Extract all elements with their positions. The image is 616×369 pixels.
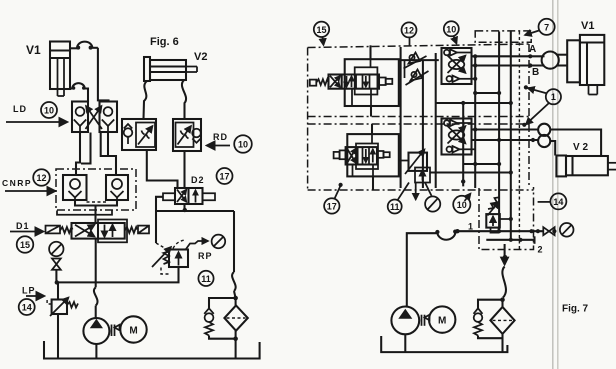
cylinder V2 cap — [144, 57, 150, 81]
relief LP arrow — [50, 298, 69, 317]
valve row2 right tabs — [377, 151, 390, 158]
solenoid valve row1 spring — [316, 79, 328, 85]
reducing valve inner arrow — [422, 170, 424, 181]
check pack 12 top line — [399, 59, 439, 61]
cross line y164 — [463, 163, 499, 165]
svg-text:11: 11 — [390, 202, 400, 212]
pump fig7 suction — [404, 334, 406, 352]
arrow CNRP — [5, 190, 55, 192]
relief valve 14 adjust spring — [488, 197, 500, 215]
pack row2 top check — [444, 120, 472, 126]
junction dots V2 lines — [473, 127, 477, 131]
relief LP spring — [67, 302, 78, 308]
circled 14 fig7 — [550, 193, 566, 209]
valve D2 crossed arrows — [177, 190, 187, 203]
bypass check fig7 — [474, 308, 483, 322]
valve row1 body — [329, 75, 380, 89]
relief RP adjust arrow — [152, 247, 171, 267]
throttle arrow RD-right — [178, 126, 192, 145]
svg-text:B: B — [532, 67, 539, 78]
gauge RP — [212, 235, 226, 249]
junction dot port2 — [509, 238, 513, 242]
port line B — [472, 64, 542, 66]
check ball left — [74, 107, 86, 132]
svg-text:12: 12 — [404, 25, 414, 35]
relief RP spring — [164, 252, 170, 265]
arrow RD — [207, 145, 230, 147]
leader 12 — [409, 37, 411, 46]
svg-text:V1: V1 — [581, 20, 594, 32]
manifold line x511 — [510, 32, 512, 240]
check 12 lower — [411, 70, 423, 81]
coupling fig7 — [422, 315, 430, 326]
circled 17 fig7 — [324, 198, 339, 213]
cylinder V1 fig7 body — [580, 35, 604, 85]
relief RP pilot dash below — [161, 268, 170, 275]
filter element dashed — [227, 317, 246, 319]
svg-text:15: 15 — [20, 240, 30, 250]
arrow D1 — [10, 231, 43, 233]
junction dot x463 — [461, 179, 465, 183]
coupler V2 circles — [538, 124, 550, 147]
arrow 10 top — [454, 36, 457, 44]
svg-text:17: 17 — [327, 201, 337, 211]
svg-text:RD: RD — [213, 132, 228, 142]
svg-text:V1: V1 — [26, 43, 41, 57]
port line A — [472, 55, 542, 57]
flow control valve RD-left frame — [122, 119, 156, 150]
hose to filter fig6 — [232, 272, 236, 298]
pump fig7 triangle — [398, 309, 412, 319]
cylinder V1 body — [50, 42, 70, 90]
circled 10 fig7 top — [444, 21, 459, 36]
valve D2 left port tab — [163, 193, 175, 200]
junction dot internal — [509, 217, 513, 221]
tank line fig6 — [44, 341, 260, 359]
junction dot header — [55, 280, 59, 284]
junction dot D2 — [183, 208, 187, 212]
reducing valve drain arrow — [415, 183, 417, 200]
manifold line x463 — [462, 103, 464, 186]
bypass check fig6 — [204, 308, 214, 322]
spring D1 left — [60, 227, 73, 233]
circled 1 — [546, 89, 561, 104]
flow control valve RD-right frame — [173, 119, 201, 151]
junction dots A B lines — [473, 54, 477, 58]
subplate row1 port wires — [352, 59, 371, 105]
port 3 wire — [504, 244, 506, 265]
page fold line right — [557, 0, 559, 369]
dashed pilot link — [87, 201, 107, 203]
svg-text:2: 2 — [538, 245, 543, 255]
cylinder V1 fig7 rod — [589, 85, 598, 95]
junction dot filter top — [233, 296, 238, 301]
port 2 line — [486, 239, 534, 241]
reducing valve arrow — [405, 150, 425, 175]
cylinder V2 fig7 body — [566, 156, 608, 175]
junction dot y172.5 — [509, 170, 513, 174]
wire subplate row1 down — [370, 106, 372, 117]
pack row1 ellipse + cross arrows — [448, 56, 466, 74]
filter diamond fig6 — [224, 305, 247, 330]
gauge isolator check — [52, 259, 61, 270]
pump triangle — [90, 319, 103, 328]
circled 15 — [17, 236, 34, 253]
arrow 15 to box — [323, 37, 324, 45]
junction dots port1 — [455, 229, 459, 233]
manifold line x436 — [435, 53, 437, 188]
big dash-dot enclosure fig7 — [308, 44, 534, 190]
manifold line x423 — [422, 60, 424, 188]
svg-text:A: A — [529, 44, 536, 55]
pack row1 bottom check — [447, 76, 460, 82]
cylinder V2 fig7 cap — [556, 156, 566, 177]
valve row2 body — [346, 147, 377, 164]
svg-text:V2: V2 — [194, 51, 207, 63]
dash-dot box 7 — [475, 31, 531, 42]
check 12 upper — [409, 53, 421, 64]
solenoid D1 left — [46, 226, 61, 234]
tank line fig7 — [381, 336, 507, 352]
gauge fig7 mid — [425, 196, 440, 211]
valve D1 parallel arrows — [105, 225, 113, 238]
valve D2 right port tab — [203, 193, 216, 200]
drain loop line under CNRP — [57, 211, 112, 215]
throttle square RD-left — [136, 123, 155, 148]
valve row2 crossed arrows — [347, 149, 356, 164]
arrow 10 bottom — [465, 194, 471, 202]
filter element dashed fig7 — [493, 319, 513, 321]
subplate row1 — [345, 59, 399, 106]
check ball CNRP left — [69, 179, 82, 200]
arrow 7 to box — [525, 31, 539, 36]
coupler V1 stubs — [542, 55, 568, 66]
valve D1 body — [72, 223, 125, 239]
relief valve LP — [52, 300, 67, 315]
counterbalance pack row1 frame — [442, 48, 472, 84]
svg-text:15: 15 — [316, 25, 326, 35]
check ball RD-right — [192, 129, 201, 143]
pack row2 check link — [460, 148, 476, 150]
circled 15 fig7 — [314, 22, 329, 37]
pump — [83, 318, 109, 344]
svg-text:M: M — [438, 316, 446, 327]
valve D1 crossed arrows — [75, 225, 95, 237]
wire gauge to relief line — [55, 270, 57, 283]
valve row1 straight arrows — [347, 76, 352, 87]
manifold dashed line x519 — [518, 32, 520, 250]
pump suction wire — [95, 344, 97, 359]
svg-text:1: 1 — [551, 92, 556, 102]
wire top border to subplate row1 — [369, 45, 371, 59]
pilot check square left — [63, 175, 87, 200]
circled 17 — [217, 168, 233, 184]
pack row2 ellipse + cross arrows — [448, 126, 466, 144]
hose V2 right — [182, 80, 186, 119]
wire check bottom fig7 — [478, 336, 503, 339]
circled 10 (RD) — [234, 135, 252, 153]
cylinder V2 fig7 rod — [608, 163, 616, 170]
svg-text:Fig. 6: Fig. 6 — [150, 36, 179, 48]
cross line y172.5 — [430, 171, 511, 173]
relief valve 14 square — [486, 214, 500, 228]
wire subplate row2 down — [372, 176, 374, 190]
reducing valve 11 square1 — [409, 153, 428, 171]
port 1 line — [456, 230, 543, 232]
reducing valve connections — [399, 160, 409, 162]
arrow LD — [6, 121, 67, 123]
svg-text:D1: D1 — [16, 221, 30, 231]
leader 14 — [538, 201, 551, 203]
circled 10 fig7 bottom — [453, 196, 470, 213]
junction dots y103 — [461, 101, 465, 105]
wire pack12 vertical — [404, 60, 406, 78]
valve row1 inner lines — [363, 75, 370, 89]
dashed pilot to RP — [156, 243, 168, 250]
svg-text:RP: RP — [198, 251, 213, 261]
svg-text:CNRP: CNRP — [2, 178, 32, 188]
junction dot filter bottom — [233, 336, 238, 341]
subplate row2 — [347, 134, 399, 176]
reducing valve square2 — [415, 168, 430, 183]
cross line y93 — [475, 92, 499, 94]
svg-text:10: 10 — [446, 24, 456, 34]
filter diamond fig7 — [490, 307, 514, 334]
relief header line — [57, 267, 179, 282]
arrow LP — [26, 295, 44, 297]
junction dots y164 — [473, 162, 477, 166]
hose V2 left — [144, 81, 148, 119]
svg-text:LD: LD — [13, 104, 27, 114]
leader 1 lower — [526, 103, 549, 124]
svg-text:14: 14 — [22, 302, 32, 312]
svg-text:12: 12 — [36, 173, 46, 183]
junction dot filter top fig7 — [500, 297, 505, 302]
port 2 end tick — [533, 236, 535, 244]
check ball RD-left — [124, 124, 133, 144]
svg-text:17: 17 — [219, 172, 229, 182]
wire V1 bottom port — [70, 83, 89, 102]
pack row1 top check — [444, 49, 472, 55]
cylinder V2 rod — [186, 67, 197, 73]
counterbalance valve 10 left square — [72, 102, 88, 133]
wire filter to tank — [235, 331, 237, 359]
svg-text:7: 7 — [544, 22, 549, 32]
circled 11 — [198, 271, 213, 286]
cylinder V1 rod — [58, 58, 65, 96]
circled 12 fig7 — [402, 22, 417, 37]
relief valve RP — [169, 250, 188, 268]
junction dots on V1 bottom hose — [72, 86, 76, 90]
junction dots y93 — [473, 91, 477, 95]
counterbalance pack row2 frame — [442, 119, 472, 155]
valve row1 crossed arrows — [330, 76, 340, 88]
wire D2 bottom — [183, 204, 185, 211]
svg-text:10: 10 — [238, 140, 248, 150]
throttle square RD-right — [176, 123, 194, 148]
cylinder V1 fig7 plate — [567, 40, 580, 82]
pilot check square right — [106, 175, 128, 200]
wire V1 top port — [70, 42, 109, 102]
svg-text:V 2: V 2 — [573, 142, 588, 153]
coupler V2 wires — [550, 130, 601, 156]
port line V2-B — [472, 139, 539, 141]
svg-text:10: 10 — [44, 105, 54, 115]
wire to gauge row2 — [425, 183, 432, 196]
subplate row2 port wires — [353, 134, 374, 176]
bypass spring fig6 — [205, 322, 213, 336]
check ball right — [102, 107, 114, 132]
relief valve 14 arrow — [492, 216, 494, 226]
wire D2 loop — [156, 197, 234, 272]
check 12 diagonals — [404, 56, 429, 85]
valve row2 second position frame — [356, 144, 378, 170]
valve D2 body — [175, 188, 203, 204]
wire LP vertical — [57, 282, 59, 358]
leader 17 — [335, 186, 341, 199]
svg-text:D2: D2 — [191, 175, 205, 185]
manifold line x400 — [400, 47, 402, 188]
throttle arrow RD-left — [138, 126, 153, 145]
relief RP pilot dash top — [173, 240, 186, 249]
manifold line x499 — [498, 32, 500, 232]
hose port3 to filter — [502, 267, 506, 298]
spring D1 right — [125, 227, 138, 233]
page fold line left — [552, 0, 554, 369]
leader 1 upper — [528, 88, 547, 93]
relief valve 14 tab — [491, 228, 499, 233]
counterbalance valve 10 right square — [100, 102, 118, 133]
valve row1 second position frame — [355, 67, 378, 94]
wire mid border to subplate row2 — [371, 124, 373, 134]
svg-text:LP: LP — [22, 286, 36, 296]
svg-text:Fig. 7: Fig. 7 — [562, 304, 589, 315]
relief internal link — [500, 218, 511, 220]
valve row2 inner lines — [363, 147, 373, 164]
valve D1 second position frame — [98, 220, 127, 243]
wire check bottom — [209, 336, 236, 339]
CNRP outlet wires — [75, 200, 117, 223]
relief LP pilot dash — [47, 299, 52, 304]
coupling pump-motor — [112, 325, 120, 337]
gauge isolator bowtie — [543, 227, 554, 235]
gauge under D1 — [49, 242, 63, 256]
circled 7 — [539, 19, 555, 35]
junction dots on V1 top hose — [76, 46, 80, 50]
check ball CNRP right — [111, 179, 124, 200]
solenoid valve row1 port tab — [310, 80, 317, 86]
svg-text:1: 1 — [468, 222, 473, 232]
manifold line x475 — [474, 56, 476, 188]
cylinder V2 body — [150, 60, 186, 80]
bypass spring fig7 — [474, 322, 482, 336]
gauge fig7 right — [560, 223, 574, 237]
wires LD to CNRP — [76, 132, 116, 175]
pack row2 bottom check — [447, 146, 460, 152]
circled 11 fig7 — [388, 200, 402, 214]
valve D2 arrow right cell — [195, 190, 197, 203]
pump fig7 — [391, 307, 419, 335]
wire RD-right to D2 — [183, 151, 185, 188]
wire RD-left to D2 — [147, 150, 178, 188]
dash-dot box CNRP — [56, 169, 136, 210]
main pressure wire D1 to pump — [94, 239, 98, 318]
relief RP arrow — [178, 252, 180, 266]
svg-text:10: 10 — [457, 200, 467, 210]
wire RP to gauge — [186, 241, 208, 249]
filter branch top fig7 — [478, 300, 503, 309]
motor M — [120, 316, 146, 342]
svg-text:11: 11 — [201, 274, 211, 284]
svg-text:14: 14 — [553, 197, 563, 207]
junction dot 17 leader — [339, 183, 343, 187]
wire filter top branch — [209, 298, 236, 308]
motor M fig7 — [429, 306, 455, 332]
solenoid valve row2 port tabs — [334, 150, 346, 159]
wire filter to tank fig7 — [501, 334, 503, 352]
relief block dash-dot box — [479, 187, 534, 250]
circled 14 — [19, 299, 35, 315]
leader 11 — [398, 183, 410, 201]
pilot cross arrows — [86, 106, 103, 129]
junction dots leaders — [524, 85, 528, 89]
pump line fig7 — [407, 230, 458, 308]
valve row1 right tabs — [379, 78, 392, 86]
cross line y103 — [436, 102, 511, 104]
pack row1 check link — [460, 78, 476, 80]
solenoid D1 right — [138, 226, 149, 234]
circled 12 — [33, 169, 50, 186]
circled 10 (LD) — [41, 102, 57, 118]
coupler V1 circle — [542, 52, 559, 69]
svg-text:3: 3 — [503, 254, 508, 264]
svg-text:M: M — [129, 326, 137, 337]
port line V2-A — [472, 128, 539, 130]
